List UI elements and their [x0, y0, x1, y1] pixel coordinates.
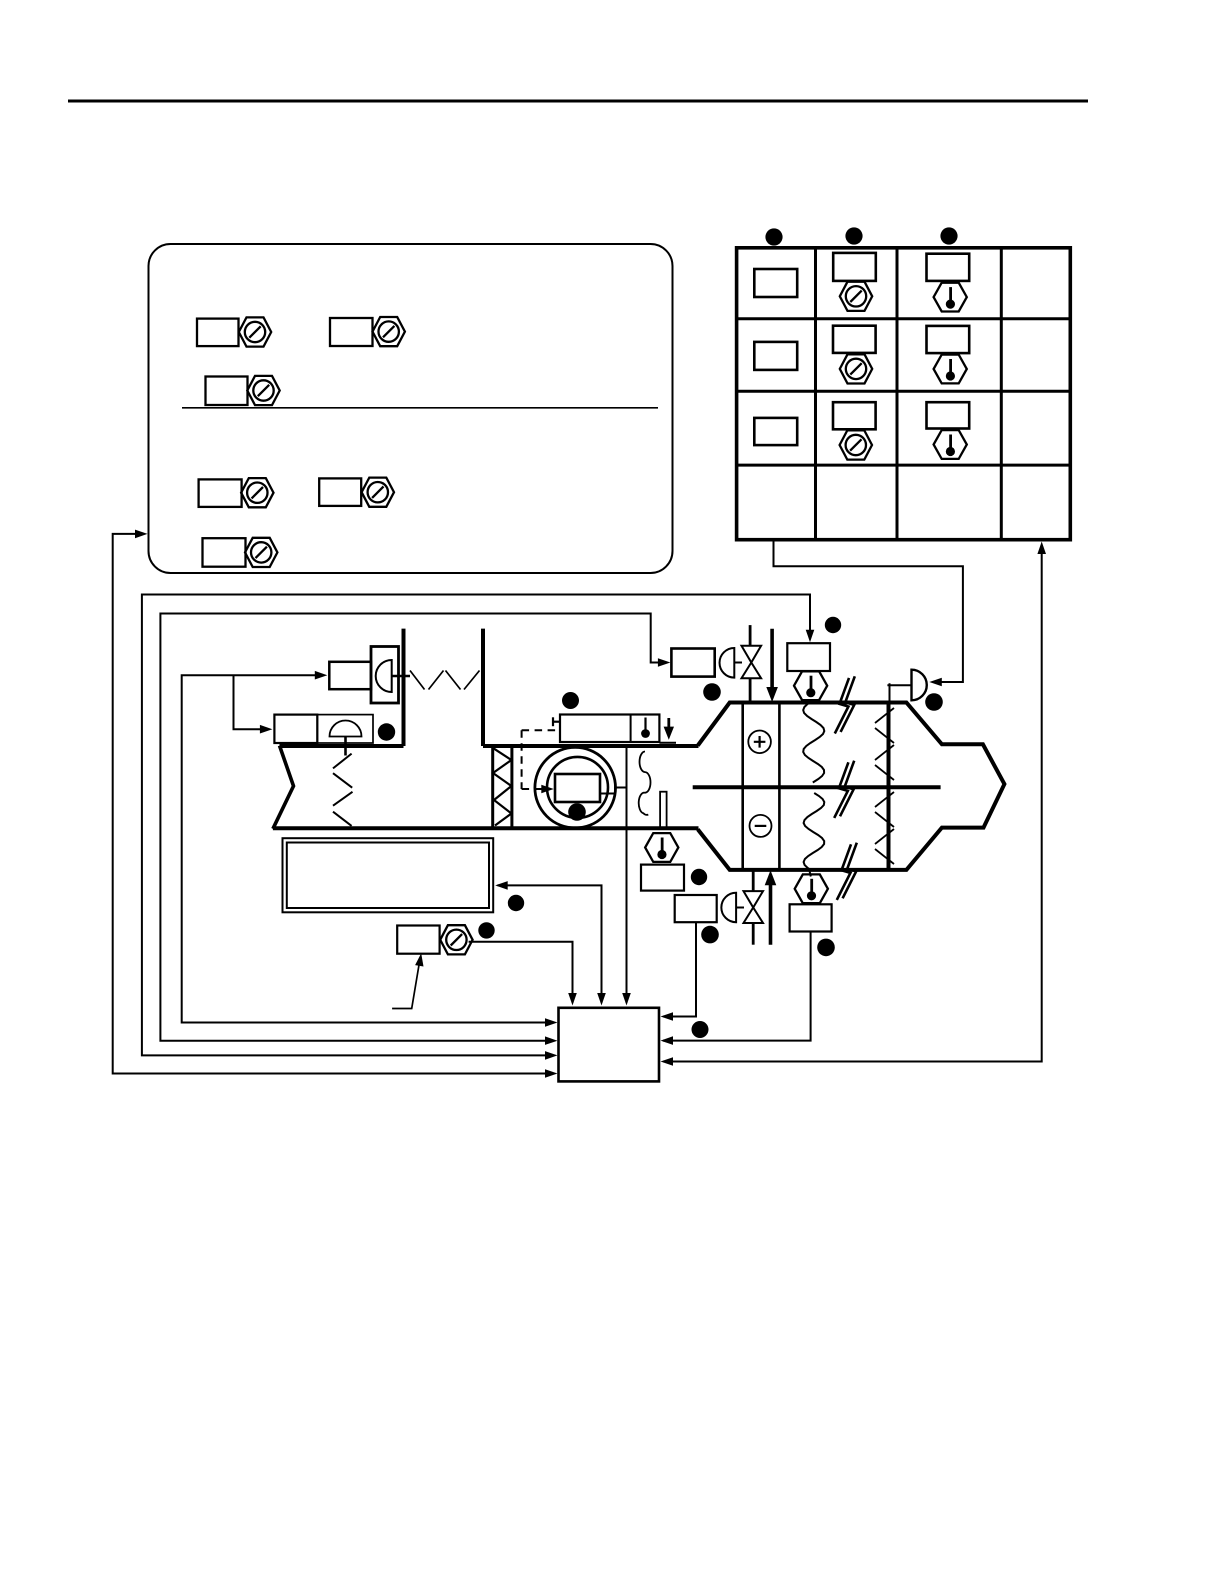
- zone double box: [283, 838, 494, 912]
- wire W5 table to duct sensor: [774, 540, 963, 682]
- duct top edge left: [280, 744, 404, 748]
- cell r3c3 sensor: [927, 402, 970, 428]
- legend symbol E: [319, 478, 394, 507]
- vessel center line: [693, 785, 941, 789]
- filter media zigzag: [493, 748, 512, 826]
- cell r1c2 setpoint: [833, 253, 876, 281]
- table header dot 1: [765, 228, 782, 245]
- wire W2 humidifier command loop: [142, 595, 810, 1056]
- setpoint legend rounded box: [149, 244, 673, 573]
- top spray wavy: [803, 701, 824, 783]
- cell r3c2 setpoint: [833, 402, 876, 429]
- RA averaging element: [333, 754, 353, 826]
- dot near controller: [692, 1021, 709, 1038]
- bottom right sensor rect: [790, 904, 832, 931]
- wire W6 controller to table: [663, 545, 1042, 1062]
- wire W15 probe in vessel: [887, 684, 911, 686]
- RA sensor box: [274, 715, 317, 743]
- main wires: [113, 530, 1046, 1078]
- fan scroll outer: [535, 747, 616, 828]
- RA sensor dome: [330, 721, 362, 737]
- legend symbol F: [203, 538, 278, 567]
- wire W16 dashed pressure tap: [522, 730, 558, 789]
- legend divider: [182, 407, 658, 409]
- wire W18 thick arrow into vessel top: [770, 629, 774, 694]
- bottom left sensor hex: [645, 833, 678, 862]
- cell r3c1 rect: [754, 418, 797, 445]
- dot RA sensor: [378, 723, 395, 740]
- fan scroll inner: [547, 757, 608, 818]
- wire W7 bottom sensor to controller: [663, 932, 811, 1041]
- wire W10 fan to controller: [626, 745, 628, 1003]
- cell r2c2 setpoint: [833, 326, 876, 353]
- wire W4 damper command loop: [182, 675, 553, 1022]
- ionizer divider 2: [778, 703, 781, 870]
- bottom valve body: [744, 891, 764, 907]
- dot bottom left sensor: [691, 869, 707, 885]
- break slash bottom: [837, 843, 857, 900]
- schedule table grid: [737, 248, 1071, 540]
- plus terminal: [748, 731, 771, 754]
- table cells: [754, 253, 969, 460]
- legend symbol C: [206, 376, 280, 405]
- zone setpoint rect: [397, 926, 439, 954]
- wire W3 valve command loop: [160, 614, 666, 1041]
- legend symbol B: [330, 317, 405, 346]
- RA sensor stem: [344, 737, 347, 756]
- damper actuator housing: [371, 647, 399, 704]
- dot above humidifier rect: [825, 617, 841, 633]
- OA duct left wall: [402, 629, 406, 746]
- RA duct torn edge: [273, 746, 294, 829]
- duct static sensor dome: [912, 670, 927, 701]
- top valve actuator dome: [720, 648, 735, 678]
- wire W17 top valve pipe: [749, 625, 752, 646]
- bottom valve rect: [675, 895, 717, 922]
- dot above supply sensor: [562, 692, 579, 709]
- wire W4a branch to RA sensor: [234, 675, 269, 729]
- wire W8 valve rect to controller: [663, 922, 696, 1016]
- dot right of zone hex: [478, 922, 494, 938]
- ionizer divider 1: [741, 703, 744, 870]
- cell r2c3 sensor: [927, 326, 970, 353]
- wire W19 bottom valve pipe: [752, 869, 755, 891]
- filter frame: [491, 747, 494, 828]
- vessel: [693, 676, 1005, 900]
- eliminator hatches: [875, 708, 894, 864]
- table header dot 2: [845, 227, 862, 244]
- sensors and valves: [283, 617, 943, 1038]
- flex capillary right of fan: [639, 752, 651, 815]
- legend symbol A: [197, 317, 271, 346]
- OA damper blades: [410, 671, 480, 690]
- air handler unit: [273, 629, 699, 829]
- duct bottom edge: [273, 826, 699, 830]
- break slash middle: [834, 761, 854, 818]
- dot near static sensor: [925, 693, 943, 711]
- duct top edge right: [483, 744, 699, 748]
- fan motor rect: [555, 774, 600, 802]
- OA duct right wall: [481, 629, 485, 746]
- cell r1c3 sensor: [927, 254, 970, 281]
- wire W20 thick arrow into vessel bottom: [769, 878, 773, 945]
- humidity sensor hex top: [794, 671, 827, 700]
- bottom valve D dome: [721, 893, 736, 923]
- minus terminal: [750, 815, 772, 837]
- bottom spray wavy: [804, 793, 825, 877]
- wire W22 sensor T tick: [552, 717, 554, 726]
- wire W1 outermost loop to legend box and controller: [113, 534, 553, 1074]
- wire W12 leader arrow: [392, 957, 420, 1009]
- wire W10a fan jog: [600, 788, 627, 794]
- dot right of zone box: [508, 895, 524, 911]
- damper actuator dome: [376, 660, 392, 692]
- supply sensor probe: [644, 718, 646, 731]
- wire W11 sensor to controller: [469, 942, 573, 1003]
- top valve body: [742, 646, 762, 663]
- damper command rect: [329, 662, 371, 689]
- wire W21 supply sensor down arrow: [667, 718, 670, 733]
- eliminator line: [887, 703, 889, 870]
- vessel outline: [698, 703, 1005, 870]
- humidifier command rect: [787, 643, 830, 671]
- supply sensor box: [560, 715, 659, 743]
- dot below bottom right sensor: [817, 939, 835, 957]
- cell r2c1 rect: [754, 342, 797, 370]
- zone setpoint hex: [440, 925, 472, 954]
- top valve rect: [671, 649, 714, 677]
- humidity probe bar: [660, 792, 667, 829]
- controller box: [559, 1008, 660, 1082]
- legend symbol D: [199, 478, 274, 507]
- dot left of vessel: [703, 683, 721, 701]
- dot below valve rect: [701, 926, 719, 944]
- top rule: [68, 100, 1088, 103]
- wire W9 to zone box: [498, 885, 602, 1003]
- break slash top: [835, 676, 855, 733]
- fan status dot: [568, 803, 586, 821]
- bottom right sensor hex: [795, 874, 828, 903]
- bottom left sensor rect: [641, 865, 684, 891]
- table header dot 3: [940, 227, 957, 244]
- damper shaft: [392, 675, 410, 678]
- cell r1c1 rect: [754, 269, 797, 297]
